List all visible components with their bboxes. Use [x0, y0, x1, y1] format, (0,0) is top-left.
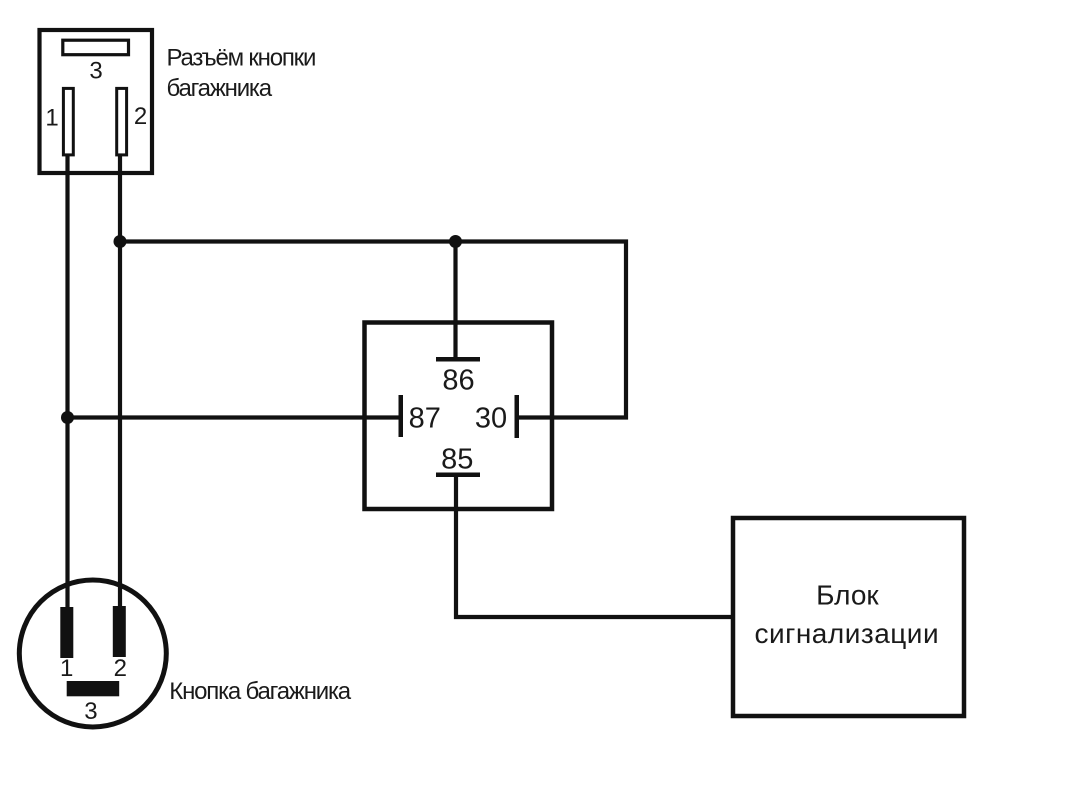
- svg-text:1: 1: [60, 655, 73, 682]
- svg-text:2: 2: [114, 655, 127, 682]
- svg-text:87: 87: [409, 402, 441, 434]
- svg-text:2: 2: [134, 103, 147, 130]
- svg-text:сигнализации: сигнализации: [754, 618, 939, 649]
- svg-text:85: 85: [441, 444, 473, 476]
- svg-text:3: 3: [84, 698, 97, 725]
- svg-text:30: 30: [475, 402, 507, 434]
- svg-text:багажника: багажника: [167, 75, 273, 102]
- svg-text:Кнопка багажника: Кнопка багажника: [169, 678, 351, 705]
- svg-text:86: 86: [442, 365, 474, 397]
- svg-text:Блок: Блок: [816, 579, 879, 610]
- svg-text:3: 3: [89, 58, 102, 85]
- svg-text:Разъём кнопки: Разъём кнопки: [167, 45, 316, 72]
- svg-text:1: 1: [45, 105, 58, 132]
